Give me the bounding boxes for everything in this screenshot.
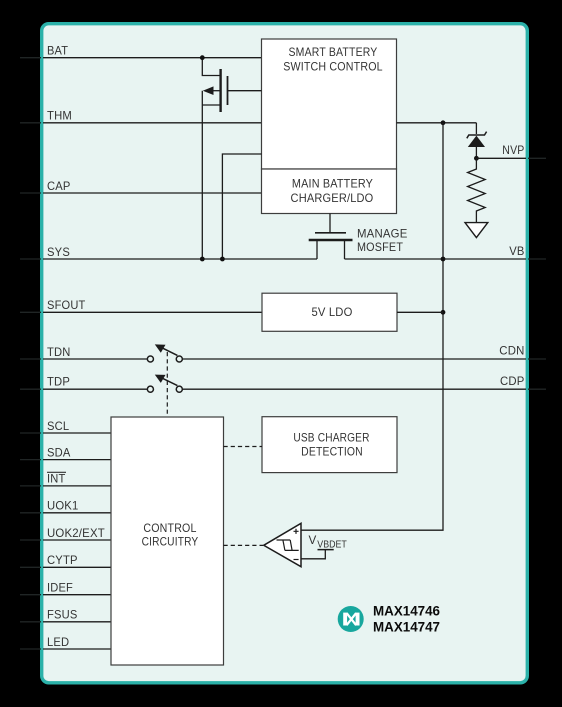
transistor Q1 body arrow [203, 86, 214, 95]
svg-text:MAIN BATTERY: MAIN BATTERY [292, 176, 373, 190]
node dot on SYS at x222 [220, 257, 225, 262]
wire UOK1 [43, 512, 111, 514]
node dot Q1 drain on SYS [200, 257, 205, 262]
svg-text:CDN: CDN [499, 343, 524, 357]
svg-text:SFOUT: SFOUT [47, 298, 86, 312]
right outside stub wires [528, 158, 546, 389]
dashed wire U5 to USB charger detection [224, 446, 263, 448]
switch S2 (TDP) left contact [147, 386, 153, 392]
wire 5V LDO output [397, 311, 443, 313]
svg-text:V: V [309, 533, 317, 547]
wire U1 lower input from SYS [222, 154, 261, 259]
block U2 MAIN BATTERY CHARGER/LDO [262, 169, 397, 214]
svg-text:THM: THM [47, 109, 72, 123]
svg-text:LED: LED [47, 635, 69, 649]
svg-text:CYTP: CYTP [47, 553, 78, 567]
zener diode D1 anode triangle [468, 136, 485, 147]
switch S1 (TDN) right contact [176, 356, 182, 362]
svg-text:SMART BATTERY: SMART BATTERY [289, 45, 378, 59]
dashed switch control wire [166, 352, 168, 417]
svg-text:TDN: TDN [47, 345, 71, 359]
wire U1 output to NVP branch [397, 122, 477, 124]
wire THM [43, 122, 262, 124]
main vertical bus wire [301, 123, 443, 530]
transistor Q2 source lead [316, 240, 318, 259]
wire UOK2/EXT [43, 539, 111, 541]
wire TDP/CDP right [182, 388, 526, 390]
wire SYS [43, 258, 317, 260]
svg-text:VB: VB [509, 244, 524, 258]
node dot on BAT at Q1 [200, 55, 205, 60]
transistor Q1 gate bar [227, 76, 229, 105]
wire SDA [43, 459, 111, 461]
svg-text:NVP: NVP [502, 143, 524, 157]
wire SCL [43, 432, 111, 434]
svg-text:SCL: SCL [47, 419, 69, 433]
node dot at VB crossing [441, 257, 446, 262]
svg-text:DETECTION: DETECTION [301, 445, 363, 459]
transistor Q2 MANAGE MOSFET gate wire [329, 214, 331, 233]
transistor Q2 gate bar [315, 232, 346, 234]
svg-text:BAT: BAT [47, 44, 69, 58]
svg-text:USB CHARGER: USB CHARGER [293, 430, 369, 444]
transistor Q1 (battery switch PFET) source wire [202, 58, 220, 76]
left outside stub wires [20, 58, 41, 649]
wire CYTP [43, 566, 111, 568]
node dot at main vertical top [441, 120, 446, 125]
resistor R1 [468, 158, 486, 222]
reference bar VBDET [318, 549, 334, 551]
svg-text:5V LDO: 5V LDO [311, 305, 352, 319]
switch S2 (TDP) right contact [176, 386, 182, 392]
wire IDEF [43, 594, 111, 596]
transistor Q1 body stub [213, 90, 221, 92]
zener diode D1 cathode bar [467, 132, 487, 139]
comparator U6 hysteresis glyph [277, 540, 299, 550]
comparator U6 plus sign [294, 529, 299, 534]
wire down to zener D1 [475, 123, 477, 134]
wire FSUS [43, 621, 111, 623]
wire NVP [476, 157, 526, 159]
switch S2 (TDP) blade [162, 378, 178, 386]
wire TDP left [43, 388, 147, 390]
svg-text:SYS: SYS [47, 245, 70, 259]
switch S1 (TDN) left contact [147, 356, 153, 362]
node dot NVP [474, 156, 479, 161]
svg-text:CDP: CDP [500, 374, 525, 388]
svg-text:CHARGER/LDO: CHARGER/LDO [291, 191, 374, 205]
wire comparator minus input [301, 550, 325, 559]
block U5 CONTROL CIRCUITRY [111, 417, 224, 665]
svg-text:CAP: CAP [47, 179, 71, 193]
svg-text:FSUS: FSUS [47, 608, 78, 622]
svg-text:SWITCH CONTROL: SWITCH CONTROL [283, 60, 383, 74]
wire CAP [43, 192, 262, 194]
wire D1 to NVP node [475, 147, 477, 158]
svg-text:CONTROL: CONTROL [143, 521, 196, 535]
comparator U6 minus sign [294, 559, 299, 561]
dashed wire U5 to comparator [224, 544, 264, 546]
transistor Q1 drain wire down to SYS [201, 91, 203, 259]
block U4 USB CHARGER DETECTION [262, 417, 397, 473]
svg-text:INT: INT [47, 472, 66, 486]
svg-text:TDP: TDP [47, 375, 70, 389]
svg-text:MOSFET: MOSFET [357, 240, 404, 254]
svg-text:MAX14747: MAX14747 [373, 620, 440, 635]
wire INT [43, 485, 111, 487]
transistor Q1 drain stub [202, 104, 220, 106]
comparator U6 VBDET triangle [264, 523, 301, 566]
svg-text:IDEF: IDEF [47, 581, 73, 595]
svg-text:VBDET: VBDET [317, 539, 347, 550]
wire TDN left [43, 358, 147, 360]
svg-text:MAX14746: MAX14746 [373, 604, 440, 619]
wire TDN/CDN right [182, 358, 526, 360]
wire LED [43, 648, 111, 650]
transistor Q2 channel bar [309, 239, 353, 241]
Maxim logo M diagonal 2 [347, 613, 357, 625]
INT overline [47, 471, 66, 473]
switch S2 (TDP) blade arrowhead [155, 375, 166, 383]
svg-text:CIRCUITRY: CIRCUITRY [142, 535, 199, 549]
switch S1 (TDN) blade arrowhead [155, 344, 166, 352]
Maxim logo circle [338, 606, 364, 632]
block U1 SMART BATTERY SWITCH CONTROL [262, 39, 397, 169]
transistor Q2 drain lead [344, 240, 346, 259]
switch S1 (TDN) blade [162, 348, 178, 356]
Maxim logo M right bar [356, 613, 360, 626]
Maxim logo M left bar [343, 613, 347, 626]
open arrow to ground reference [465, 223, 488, 238]
wire SFOUT [43, 311, 262, 313]
svg-text:SDA: SDA [47, 445, 71, 459]
block U3 5V LDO [262, 293, 397, 331]
transistor Q1 channel bar [219, 69, 221, 112]
wire VB [345, 258, 527, 260]
wire BAT [43, 57, 262, 59]
node dot at 5V LDO output [441, 310, 446, 315]
Maxim logo M diagonal 1 [347, 613, 357, 625]
svg-text:UOK2/EXT: UOK2/EXT [47, 526, 105, 540]
transistor Q1 gate wire to U1 [228, 90, 262, 92]
svg-text:UOK1: UOK1 [47, 499, 79, 513]
svg-text:MANAGE: MANAGE [357, 227, 408, 241]
